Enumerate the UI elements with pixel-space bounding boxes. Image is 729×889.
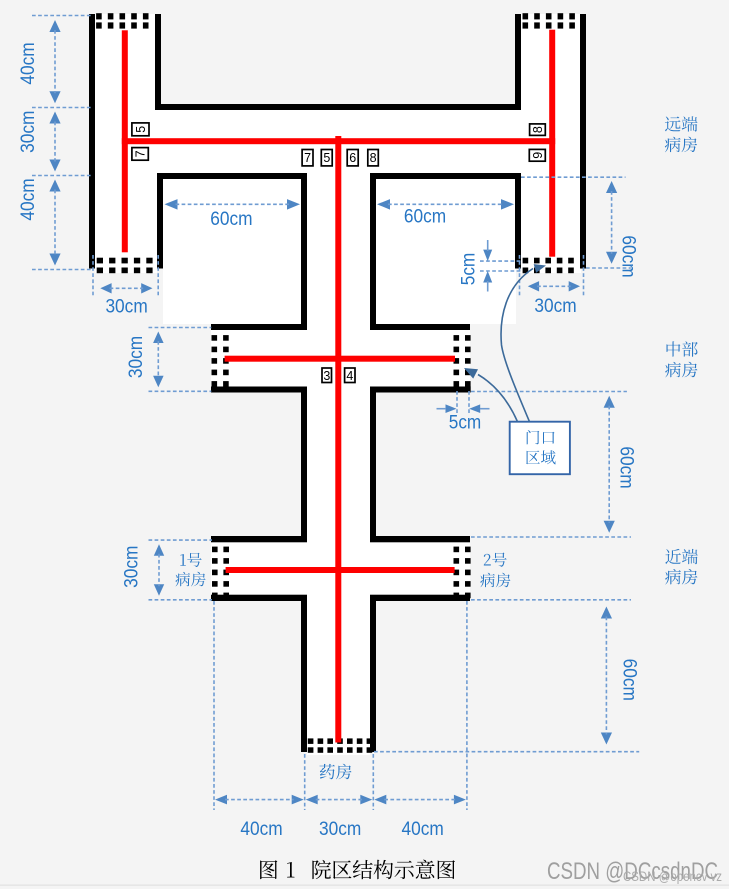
wall right corridor inner-left upper [515,14,521,110]
interior middle cross corridor [211,330,470,387]
dim tick vertical left corridor bottom b [157,255,159,298]
dim vline bottom x=373 [372,754,374,810]
callout text 区域 [526,450,556,464]
door label 5 rotated (left) [132,123,149,136]
wall left corridor outer-left [89,14,95,269]
dim arrow 30cm below left corridor [100,283,111,293]
dotted door middle cross left col1 [212,335,218,341]
dim tick y=175.5 [32,175,91,177]
wall upper horizontal bar [155,104,521,110]
interior left room [163,179,303,324]
dim arrow 30cm bottom [306,795,318,805]
svg-text:30cm: 30cm [18,111,39,153]
svg-text:5: 5 [323,151,330,165]
dim arrow 5cm down [483,250,492,262]
svg-text:3: 3 [323,369,330,383]
dim tick 5cm lower [480,270,521,272]
dim tick y=15.5 [32,15,91,17]
dotted door top of left corridor row2 [96,22,102,28]
red path top horizontal [122,138,555,144]
dim line lower cross right bottom [471,599,631,601]
interior lower cross corridor [211,542,470,595]
dotted door top of right corridor row2 [523,22,529,28]
dim arrow 60cm right bottom [601,607,612,619]
label 病房 (2号) [480,573,510,588]
callout box 门口区域 [510,422,570,475]
wall bottom corridor left [301,601,307,752]
dim tick middle cross left bottom [149,390,212,392]
svg-text:6: 6 [349,151,356,165]
wall left room top [157,173,307,179]
door label 4 (middle cross) [345,368,355,383]
label 病房 (中部) [665,362,697,378]
label 2号 [484,553,507,567]
svg-text:8: 8 [531,126,545,133]
svg-text:60cm: 60cm [404,207,446,228]
dim arrow 60cm right room [377,199,390,210]
dim tick 5cm middle b [468,391,470,413]
red path left vertical [122,30,128,252]
dotted door lower cross right col1 [454,547,460,553]
label 近端 [665,549,698,564]
svg-text:30cm: 30cm [126,336,147,378]
red path central vertical [335,136,341,743]
dim arrow 60cm right top [606,181,617,193]
dotted door top of right corridor row1 [523,13,529,19]
dim arrow 30cm left [49,112,60,124]
dim tick vertical left corridor bottom a [92,255,94,298]
wall middle cross bottom-right arm [370,387,471,393]
wall middle cross bottom-left arm [211,387,307,393]
dim line bottom corridor bottom [374,751,639,753]
dim arrow 5cm up [483,271,492,283]
caption 院区结构示意图 [312,860,455,880]
svg-text:30cm: 30cm [122,546,143,588]
caption 图 [260,860,277,879]
pointer curve to right corridor door [501,269,533,422]
svg-text:4: 4 [346,369,353,383]
wall lower cross top-left arm [211,536,307,542]
bottom divider [0,885,729,886]
label 病房 (1号) [175,572,205,587]
dotted door lower cross right col2 [465,547,471,553]
svg-text:60cm: 60cm [210,209,252,230]
door label 7 rotated (left) [132,148,148,161]
label 病房 (远端) [665,137,697,153]
wall middle cross top-left arm [211,324,307,330]
dotted door bottom of left corridor row2 [97,268,103,274]
red path lower horizontal [226,567,455,573]
wall right room top [370,173,521,179]
dotted door middle cross right col2 [465,335,471,341]
door label 7 (center) [302,150,313,166]
dim arrow 40cm bottom left [215,795,227,805]
caption 1 [287,862,295,878]
label 病房 (近端) [665,569,697,585]
dim line right rooms bottom [521,176,626,178]
dotted door bottom of left corridor row1 [97,258,103,264]
wall central corridor right upper [370,173,376,330]
wall left corridor inner-right upper [155,14,161,110]
dim arrow 40cm top-left [49,20,60,32]
dim tick lower cross left bottom [149,599,213,601]
dim arrow 30cm below right corridor [528,281,539,291]
dotted door bottom pharmacy row2 [308,747,314,753]
svg-text:40cm: 40cm [18,42,39,84]
wall bottom corridor right [370,601,376,752]
dotted door lower cross left col2 [223,547,229,553]
wall central corridor left upper [301,173,307,330]
door label 6 (center) [347,150,358,166]
svg-text:7: 7 [304,151,311,165]
svg-text:CSDN @opencv vz: CSDN @opencv vz [623,869,722,884]
svg-text:60cm: 60cm [615,446,636,488]
dim tick 5cm middle a [456,391,458,413]
door label 8 rotated (right) [530,124,546,135]
dim line middle cross right bottom [471,391,627,393]
dim tick 5cm upper [480,260,521,262]
svg-text:30cm: 30cm [319,819,361,840]
svg-text:60cm: 60cm [618,659,639,701]
wall central corridor left middle [301,393,307,537]
svg-text:5cm: 5cm [459,253,480,286]
dim arrow 5cm middle left [446,404,457,413]
wall lower cross bottom-left arm [211,595,307,601]
red path right vertical [549,30,555,257]
svg-text:40cm: 40cm [402,819,444,840]
dim line lower cross right top [471,536,631,538]
svg-text:8: 8 [370,151,377,165]
dim vline bottom x=467 [466,601,468,810]
svg-text:30cm: 30cm [105,296,147,317]
dim tick vertical right corridor bottom b [583,255,585,298]
dim arrow 60cm left room [165,199,178,210]
interior right room [376,179,516,324]
interior upper horizontal corridor [95,110,581,173]
dim arrow 60cm right middle [604,396,615,408]
dim arrow 40cm left lower [49,180,60,192]
dotted door bottom of right corridor row2 [523,268,529,274]
dotted door lower cross left col1 [212,547,218,553]
dotted door middle cross left col2 [223,335,229,341]
label 中部 [667,341,698,357]
red path middle horizontal [225,356,455,362]
dim arrow 30cm lower cross left [154,544,164,556]
svg-text:5: 5 [134,126,148,133]
wall right corridor outer-right [580,14,586,269]
dim vline bottom x=305 [304,754,306,810]
wall central corridor right middle [370,393,376,537]
label 1号 [180,553,201,567]
svg-text:40cm: 40cm [240,819,282,840]
dotted door bottom pharmacy row1 [308,738,314,744]
interior right corridor [521,14,581,273]
dim tick y=107.5 [32,107,91,109]
dim arrow 30cm middle cross left [153,332,164,344]
dotted door middle cross right col1 [454,335,460,341]
interior central corridor [307,165,370,755]
dim arrow 40cm bottom right [374,795,386,805]
dotted door top of left corridor row1 [96,13,102,19]
label 远端 [665,116,698,131]
wall lower cross bottom-right arm [370,595,470,601]
svg-text:30cm: 30cm [534,296,576,317]
dim tick lower cross left top [149,539,213,541]
svg-text:5cm: 5cm [449,413,482,434]
callout text 门口 [527,430,555,444]
dim vline bottom x=214 [213,601,215,810]
wall lower cross top-right arm [370,536,470,542]
dim tick vertical right corridor bottom a [519,255,521,298]
svg-text:9: 9 [531,152,545,159]
interior left corridor [95,14,157,273]
label 药房 [320,764,352,780]
wall middle cross top-right arm [370,324,470,330]
pointer curve to middle cross door [478,375,518,422]
dim line right corridor bottom [586,267,631,269]
door label 5 (center) [321,150,332,166]
door label 8 (center) [368,150,379,166]
wall right room right [515,173,521,269]
dim tick y=269.5 [32,269,91,271]
dotted door bottom of right corridor row1 [523,258,529,264]
svg-text:7: 7 [134,150,148,157]
dim tick middle cross left top [149,327,212,329]
wall left room left [157,173,163,269]
dim arrow 5cm middle right [469,404,480,413]
svg-text:60cm: 60cm [618,235,639,277]
door label 3 (middle cross) [322,368,332,383]
door label 9 rotated (right) [529,149,545,161]
svg-text:40cm: 40cm [18,178,39,220]
